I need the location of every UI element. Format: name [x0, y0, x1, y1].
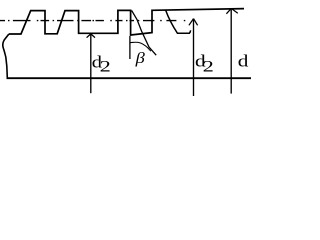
svg-text:2: 2 [100, 58, 111, 75]
svg-text:d: d [238, 52, 249, 71]
svg-text:β: β [135, 49, 146, 67]
svg-text:2: 2 [203, 58, 214, 75]
